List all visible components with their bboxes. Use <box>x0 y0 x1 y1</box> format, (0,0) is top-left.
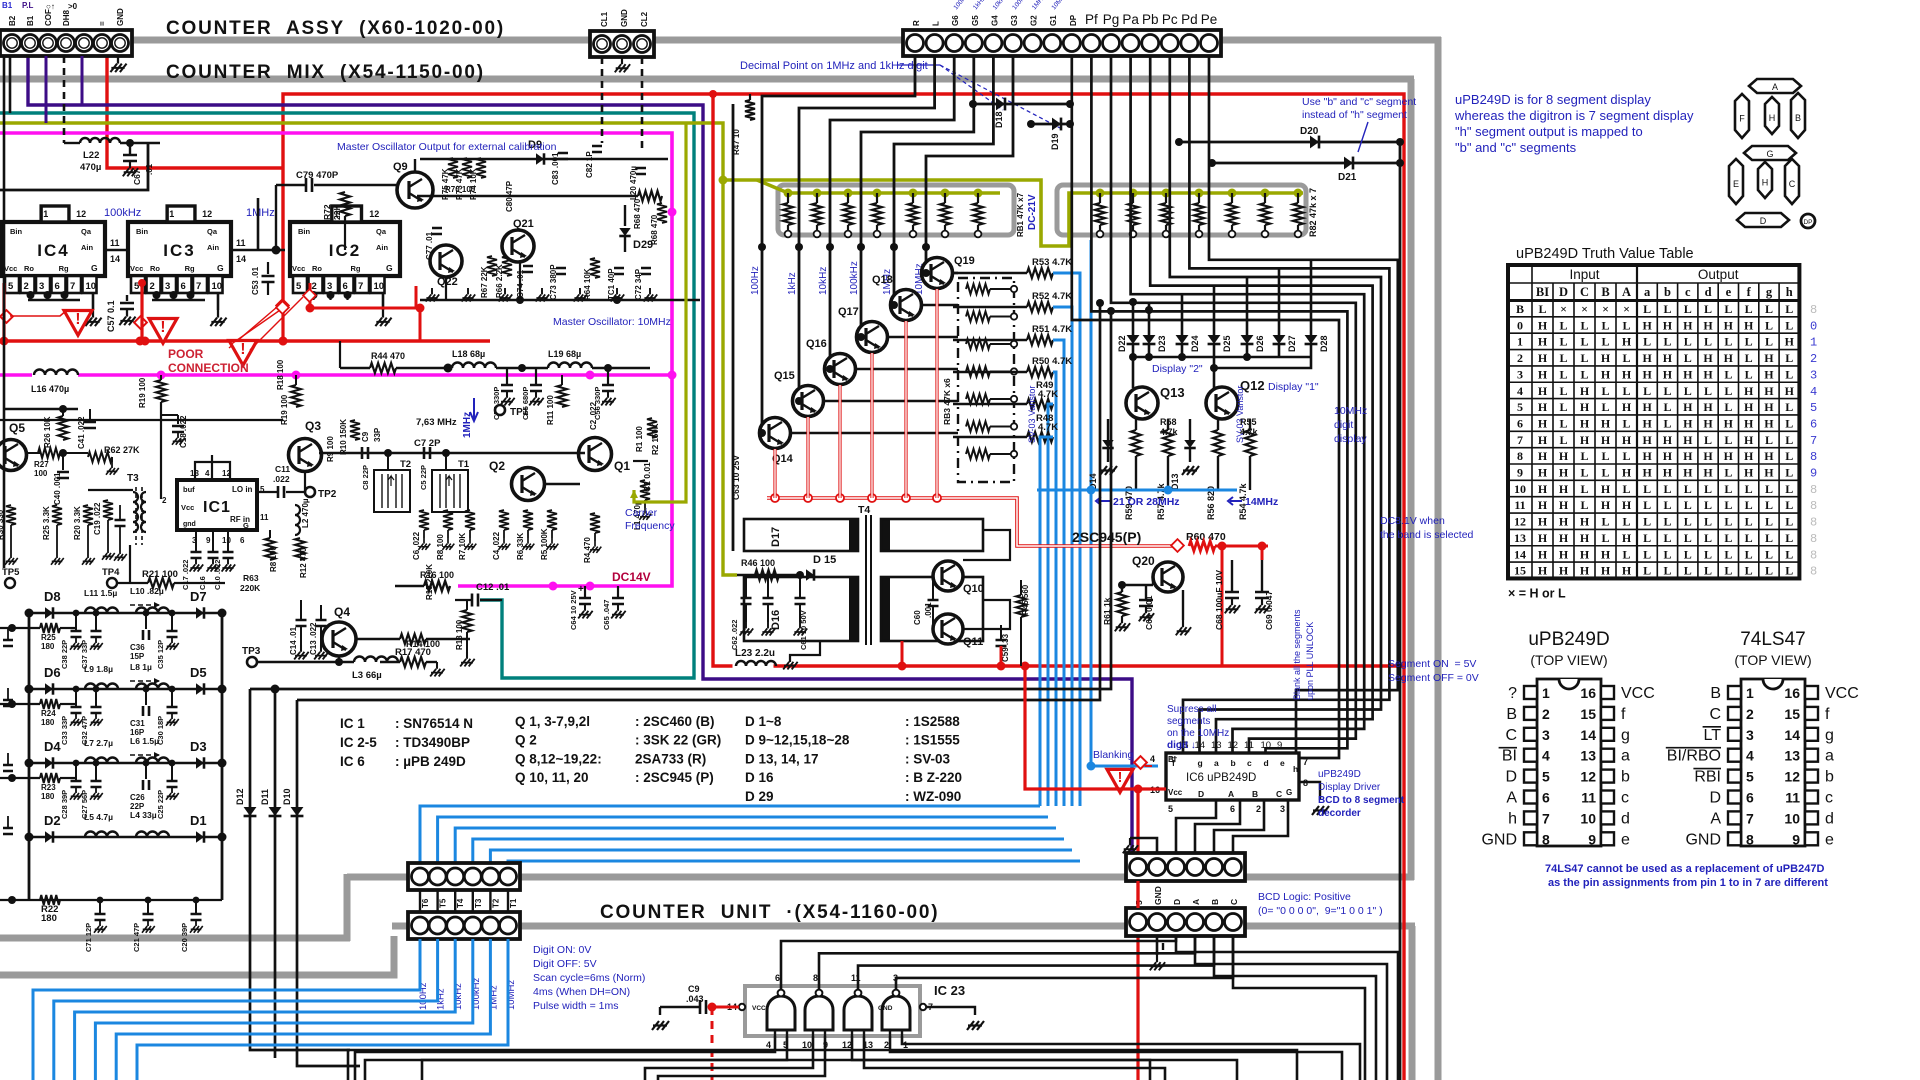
svg-text:L8 1µ: L8 1µ <box>130 662 152 672</box>
capacitor C53 <box>267 262 269 274</box>
nand gate 1 <box>767 996 795 1030</box>
svg-text:h: h <box>1786 285 1793 299</box>
resistor R61 <box>1121 585 1123 592</box>
svg-text:CONNECTION: CONNECTION <box>168 361 249 375</box>
svg-text:BCD Logic: Positive: BCD Logic: Positive <box>1258 891 1351 903</box>
wire q5 top <box>4 408 78 410</box>
svg-text:TP2: TP2 <box>318 489 337 500</box>
svg-text:L: L <box>1601 466 1609 480</box>
svg-text:R67 22K: R67 22K <box>480 266 489 298</box>
svg-text:D8: D8 <box>44 589 61 604</box>
svg-text:Pulse width = 1ms: Pulse width = 1ms <box>533 1000 619 1012</box>
svg-text:6: 6 <box>181 281 186 292</box>
svg-text:H: H <box>1580 416 1590 430</box>
svg-text:A: A <box>1506 790 1517 807</box>
capacitor C41 <box>89 409 91 420</box>
svg-text:H: H <box>1703 466 1713 480</box>
svg-text:Pa: Pa <box>1122 12 1139 27</box>
svg-text:g: g <box>1825 727 1834 744</box>
wire gray outer frame top <box>133 37 592 44</box>
svg-text:R74 10K: R74 10K <box>469 168 478 200</box>
svg-text:7: 7 <box>1746 810 1754 826</box>
svg-text:Vcc: Vcc <box>292 264 305 273</box>
svg-text:Qa: Qa <box>207 227 218 236</box>
svg-text:2: 2 <box>1542 706 1550 722</box>
svg-text:D7: D7 <box>190 589 207 604</box>
svg-text:GND: GND <box>1481 831 1517 848</box>
svg-text:R23: R23 <box>41 783 56 792</box>
svg-text:H: H <box>1744 416 1754 430</box>
svg-text:D: D <box>1709 790 1721 807</box>
svg-text:R66 2.2K: R66 2.2K <box>495 264 504 298</box>
transistor Q16 <box>825 354 856 385</box>
svg-text:8: 8 <box>1810 565 1817 579</box>
resistors R48-R53 <box>953 272 1027 275</box>
svg-text:H: H <box>1744 466 1754 480</box>
svg-text:H: H <box>1622 466 1632 480</box>
svg-text:D2: D2 <box>44 813 61 828</box>
svg-text:Use "b" and "c" segment: Use "b" and "c" segment <box>1302 96 1416 108</box>
capacitor C40 <box>62 453 64 470</box>
svg-text:L: L <box>1643 302 1651 316</box>
capacitor C64 <box>584 586 586 598</box>
svg-text:L: L <box>1622 515 1630 529</box>
svg-text:H: H <box>1622 335 1632 349</box>
svg-text:3: 3 <box>1810 368 1817 382</box>
svg-text:Q3: Q3 <box>305 419 321 433</box>
svg-text:H: H <box>1580 384 1590 398</box>
svg-text:L: L <box>1745 515 1753 529</box>
svg-text:L10 .82µ: L10 .82µ <box>130 586 164 596</box>
svg-text:× = H or L: × = H or L <box>1508 586 1566 600</box>
svg-text:A: A <box>1772 82 1778 92</box>
svg-text:R73 47K: R73 47K <box>455 168 464 200</box>
svg-text:R75 47K: R75 47K <box>441 168 450 200</box>
svg-text:2: 2 <box>24 281 29 292</box>
wire gnd stub <box>1130 838 1157 853</box>
svg-text:L: L <box>1745 547 1753 561</box>
svg-text:L: L <box>1745 482 1753 496</box>
svg-text:L9 1.8µ: L9 1.8µ <box>84 664 113 674</box>
capacitor C67 <box>129 143 131 155</box>
svg-text:H: H <box>1538 531 1548 545</box>
svg-text:C8 22P: C8 22P <box>361 465 370 490</box>
svg-text:3: 3 <box>1746 727 1754 743</box>
svg-text:7: 7 <box>196 281 201 292</box>
svg-text:H: H <box>1642 416 1652 430</box>
svg-text:B1: B1 <box>2 1 13 10</box>
svg-text:H: H <box>1724 449 1734 463</box>
svg-text:L: L <box>1724 498 1732 512</box>
svg-text:R1 100: R1 100 <box>635 426 644 452</box>
ground osc <box>467 288 469 294</box>
svg-text:Digit OFF: 5V: Digit OFF: 5V <box>533 958 597 970</box>
svg-text:Display Driver: Display Driver <box>1318 782 1381 793</box>
svg-text:H: H <box>1538 498 1548 512</box>
svg-text:: µPB 249D: : µPB 249D <box>395 754 466 769</box>
svg-text:L: L <box>1785 547 1793 561</box>
svg-text:: WZ-090: : WZ-090 <box>905 789 961 804</box>
capacitor C68 <box>1231 560 1233 592</box>
svg-text:a: a <box>1214 758 1219 768</box>
svg-text:3: 3 <box>1517 367 1523 381</box>
svg-text:6: 6 <box>55 281 60 292</box>
wire q1-q2 row <box>545 483 580 485</box>
svg-text:1MHz: 1MHz <box>246 207 275 219</box>
svg-text:.001: .001 <box>924 602 933 618</box>
svg-text:?: ? <box>1508 685 1517 702</box>
capacitor C66 <box>1145 585 1147 600</box>
svg-text:B1: B1 <box>26 15 35 26</box>
svg-text:g: g <box>1198 758 1203 768</box>
svg-text:R9 100: R9 100 <box>326 436 335 462</box>
svg-text:×: × <box>1623 302 1630 316</box>
svg-text:C66 0.01: C66 0.01 <box>1144 595 1154 630</box>
svg-text:12: 12 <box>76 209 86 219</box>
svg-text:L: L <box>1643 531 1651 545</box>
svg-text:L22: L22 <box>83 150 99 161</box>
capacitor C21 <box>147 900 149 914</box>
svg-text:H: H <box>1663 351 1673 365</box>
svg-text:!: ! <box>160 319 165 336</box>
capacitor C27 <box>95 763 97 781</box>
svg-text:H: H <box>1764 449 1774 463</box>
svg-text:TC1 40P: TC1 40P <box>607 268 616 300</box>
svg-text:H: H <box>1538 466 1548 480</box>
connector J1 top-left <box>0 30 132 56</box>
svg-text:H: H <box>1744 400 1754 414</box>
resistor array RB1 box <box>778 185 1014 235</box>
capacitor C32 <box>95 689 97 707</box>
svg-text:f: f <box>1621 706 1626 723</box>
svg-text:7: 7 <box>1303 757 1308 767</box>
svg-text:BI/RBO: BI/RBO <box>1667 748 1721 765</box>
wire IC6 bcd pins <box>1176 800 1216 853</box>
svg-text:H: H <box>1559 482 1569 496</box>
svg-text:VCC: VCC <box>752 1005 766 1012</box>
svg-text:A: A <box>1228 789 1234 799</box>
wire red dashed down <box>711 1007 714 1080</box>
svg-text:D 16: D 16 <box>745 770 774 785</box>
svg-text:L: L <box>1785 367 1793 381</box>
svg-text:C: C <box>1709 706 1721 723</box>
svg-text:Pb: Pb <box>1142 12 1159 27</box>
svg-text:C22 120P: C22 120P <box>0 827 2 858</box>
svg-text:CL1: CL1 <box>600 11 609 27</box>
svg-text:GND: GND <box>1685 831 1721 848</box>
diode D21 <box>1212 162 1400 165</box>
svg-text:Q11: Q11 <box>963 636 983 648</box>
svg-text:C83 .001: C83 .001 <box>551 152 560 185</box>
svg-text:2: 2 <box>162 496 167 505</box>
resistor array element x=848 <box>847 193 849 203</box>
ground osc <box>504 288 506 294</box>
svg-text:H: H <box>1663 449 1673 463</box>
svg-text:D20: D20 <box>1300 126 1319 137</box>
capacitor C54 <box>506 368 508 385</box>
capacitor C18 <box>161 414 178 416</box>
svg-text:H: H <box>1683 400 1693 414</box>
svg-text:H: H <box>1642 400 1652 414</box>
svg-text:VCC: VCC <box>1621 685 1655 702</box>
svg-text:6: 6 <box>1810 417 1817 431</box>
svg-text:g: g <box>1621 727 1630 744</box>
svg-text:Rg: Rg <box>59 264 69 273</box>
svg-text:L: L <box>1580 498 1588 512</box>
svg-text:Pd: Pd <box>1181 12 1198 27</box>
svg-text:L: L <box>1785 302 1793 316</box>
capacitor C10 .022 <box>227 530 229 552</box>
svg-text:L: L <box>1559 384 1567 398</box>
svg-text:L: L <box>1559 400 1567 414</box>
resistor array element x=1298 <box>1297 193 1299 203</box>
svg-text:R25: R25 <box>41 633 56 642</box>
svg-text:Rg: Rg <box>351 264 361 273</box>
svg-text:R82 47k x 7: R82 47k x 7 <box>1308 188 1318 237</box>
svg-text:11: 11 <box>1244 740 1254 751</box>
warning triangle blanking <box>1107 769 1133 792</box>
svg-text:L: L <box>1724 482 1732 496</box>
svg-text:3: 3 <box>1542 727 1550 743</box>
svg-text:C53 .01: C53 .01 <box>251 266 260 295</box>
svg-text:10: 10 <box>212 281 223 292</box>
svg-text:H: H <box>1601 367 1611 381</box>
svg-text:8: 8 <box>1810 532 1817 546</box>
svg-text:the band is selected: the band is selected <box>1380 529 1474 541</box>
ground osc <box>579 288 581 294</box>
svg-text:L: L <box>1765 515 1773 529</box>
svg-text:L: L <box>1559 351 1567 365</box>
svg-text:H: H <box>1683 416 1693 430</box>
capacitor C19b <box>115 520 126 526</box>
svg-text:C5 22P: C5 22P <box>419 465 428 490</box>
wire IC23 pin7 gnd <box>920 1004 926 1010</box>
svg-text:C40 .001: C40 .001 <box>53 472 62 505</box>
svg-text:6: 6 <box>240 536 245 545</box>
svg-text:H: H <box>1683 318 1693 332</box>
svg-text:Q9: Q9 <box>393 161 408 173</box>
resistor R25 <box>0 627 40 629</box>
svg-text:L: L <box>1704 335 1712 349</box>
svg-text:L: L <box>1601 384 1609 398</box>
svg-text:6: 6 <box>1746 790 1754 806</box>
svg-text:C69 0.047: C69 0.047 <box>1264 591 1274 630</box>
svg-text:"h" segment output is mapped t: "h" segment output is mapped to <box>1455 124 1643 139</box>
svg-text:H: H <box>1622 400 1632 414</box>
svg-text:H: H <box>1601 482 1611 496</box>
capacitor C35 <box>171 613 173 631</box>
svg-text:L: L <box>1643 482 1651 496</box>
svg-text:12: 12 <box>1580 769 1596 785</box>
wire gray inner frame top <box>0 76 1414 83</box>
svg-text:D11: D11 <box>260 789 270 805</box>
svg-text:L2 470µ: L2 470µ <box>301 498 310 528</box>
svg-text:×: × <box>1560 302 1567 316</box>
svg-text:L: L <box>1765 335 1773 349</box>
wire mo top <box>648 158 668 160</box>
svg-text:L: L <box>1601 335 1609 349</box>
svg-text:H: H <box>1744 449 1754 463</box>
svg-text:12: 12 <box>1514 515 1526 529</box>
svg-text:c: c <box>1685 285 1691 299</box>
svg-text:segments: segments <box>1167 716 1210 727</box>
svg-text:Q16: Q16 <box>806 338 827 350</box>
svg-text:R5 100K: R5 100K <box>540 528 549 560</box>
wire red through connector <box>1136 881 1139 908</box>
svg-text:T4: T4 <box>858 504 870 516</box>
svg-text:Blank all the segments: Blank all the segments <box>1292 609 1302 700</box>
svg-text:GND: GND <box>878 1005 893 1012</box>
svg-text:H: H <box>1559 515 1569 529</box>
svg-text:L: L <box>1622 318 1630 332</box>
svg-text:C17 .022: C17 .022 <box>181 560 190 590</box>
svg-text:L: L <box>1724 400 1732 414</box>
svg-text:C36: C36 <box>130 643 145 652</box>
svg-text:H: H <box>1764 466 1774 480</box>
svg-text:c: c <box>1825 790 1833 807</box>
resistor array element x=877 <box>876 193 878 203</box>
svg-text:D 13, 14, 17: D 13, 14, 17 <box>745 751 819 766</box>
wires IC1 top pins <box>195 462 230 480</box>
svg-text:5: 5 <box>1810 401 1817 415</box>
wire gray counter-unit right vertical <box>1409 926 1416 1080</box>
resistor network RB3 dashed box <box>958 278 1014 482</box>
svg-text:DP: DP <box>1803 219 1812 226</box>
svg-text:L: L <box>1559 416 1567 430</box>
svg-text:D 1~8: D 1~8 <box>745 714 782 729</box>
svg-text:B: B <box>1795 113 1801 123</box>
diode D18 <box>973 103 1070 106</box>
svg-text:L: L <box>1663 498 1671 512</box>
svg-text:100kHz: 100kHz <box>849 261 860 295</box>
svg-text:H: H <box>1559 466 1569 480</box>
svg-text:1: 1 <box>1810 336 1817 350</box>
diode D11 <box>274 689 277 1058</box>
connector display segment strip <box>903 30 1221 56</box>
svg-text:Ain: Ain <box>207 243 220 252</box>
svg-text:C77 .01: C77 .01 <box>425 231 434 260</box>
svg-text:12: 12 <box>202 209 212 219</box>
svg-text:7: 7 <box>1542 810 1550 826</box>
svg-text:digit ↓: digit ↓ <box>1167 740 1196 751</box>
svg-text:G6: G6 <box>951 15 960 26</box>
svg-text:L: L <box>1622 351 1630 365</box>
svg-text:Display "1": Display "1" <box>1268 381 1319 393</box>
svg-text:D17: D17 <box>770 527 782 547</box>
svg-text:R25 3.3K: R25 3.3K <box>42 506 51 540</box>
svg-text:10kHz: 10kHz <box>818 267 829 295</box>
svg-text:Scan cycle=6ms (Norm): Scan cycle=6ms (Norm) <box>533 972 645 984</box>
svg-text:Q22: Q22 <box>437 276 458 288</box>
part left cap <box>3 765 13 771</box>
svg-text:3: 3 <box>327 281 332 292</box>
svg-text:R51 4.7K: R51 4.7K <box>1032 324 1072 335</box>
svg-text:H: H <box>1764 351 1774 365</box>
svg-text:C19 .022: C19 .022 <box>93 502 102 535</box>
svg-text:H: H <box>1538 367 1548 381</box>
svg-text:L: L <box>1704 498 1712 512</box>
svg-text:D18: D18 <box>994 111 1004 128</box>
svg-text:R17 470: R17 470 <box>395 647 431 658</box>
svg-text:: SV-03: : SV-03 <box>905 751 951 766</box>
svg-text:Ro: Ro <box>150 264 160 273</box>
svg-text:C25 22P: C25 22P <box>156 790 165 819</box>
svg-text:C: C <box>1789 179 1796 189</box>
svg-text:9: 9 <box>1810 467 1817 481</box>
svg-text:C2 .022: C2 .022 <box>589 401 598 430</box>
svg-text:H: H <box>1601 351 1611 365</box>
svg-text:L: L <box>1724 515 1732 529</box>
svg-text:Decimal Point on 1MHz and 1kHz: Decimal Point on 1MHz and 1kHz digit <box>740 60 928 72</box>
wire left edge vertical <box>3 56 6 568</box>
resistor R26 <box>62 409 64 416</box>
svg-text:e: e <box>1825 831 1834 848</box>
diode D10 <box>297 700 360 1066</box>
ground T4 <box>790 641 820 662</box>
svg-text:3: 3 <box>39 281 44 292</box>
diode D20 <box>1179 141 1400 144</box>
svg-text:H: H <box>1601 416 1611 430</box>
svg-text:L: L <box>932 21 941 26</box>
svg-text:4: 4 <box>1542 748 1550 764</box>
bottom filter row <box>0 899 222 901</box>
svg-text:C71 12P: C71 12P <box>84 923 93 952</box>
svg-text:H: H <box>1724 416 1734 430</box>
svg-text:L6 1.5µ: L6 1.5µ <box>130 736 159 746</box>
ground osc <box>541 288 543 294</box>
svg-text:0: 0 <box>1517 318 1523 332</box>
svg-text:H: H <box>1580 547 1590 561</box>
svg-text:Q20: Q20 <box>1132 554 1155 568</box>
svg-text:H: H <box>1762 178 1769 188</box>
svg-text:1: 1 <box>1542 685 1550 701</box>
svg-text:T3: T3 <box>127 473 139 484</box>
svg-text:Q13: Q13 <box>1160 385 1185 400</box>
svg-text:BCD to 8 segment: BCD to 8 segment <box>1318 795 1405 806</box>
svg-text:C61 10 50V: C61 10 50V <box>799 610 808 650</box>
svg-text:H: H <box>1744 318 1754 332</box>
svg-text:RB1 47K x7: RB1 47K x7 <box>1016 192 1025 237</box>
svg-text:T4: T4 <box>456 898 465 908</box>
resistor array element x=788 <box>787 193 789 203</box>
svg-text:H: H <box>1538 564 1548 578</box>
svg-text:Q19: Q19 <box>954 255 975 267</box>
svg-text:D5: D5 <box>190 665 207 680</box>
svg-text:H: H <box>1622 531 1632 545</box>
svg-text:H: H <box>1538 515 1548 529</box>
wire teal VFO rail <box>0 113 694 678</box>
transistor Q10 <box>933 561 963 591</box>
svg-text:Pg: Pg <box>1103 12 1120 27</box>
svg-text:L: L <box>1724 466 1732 480</box>
svg-text:Qa: Qa <box>376 227 387 236</box>
svg-text:Rg: Rg <box>185 264 195 273</box>
svg-text:L: L <box>1580 466 1588 480</box>
svg-text:L: L <box>1745 367 1753 381</box>
svg-text:BI: BI <box>1536 285 1549 299</box>
svg-text:C4 .022: C4 .022 <box>492 531 501 560</box>
svg-text:L: L <box>1663 400 1671 414</box>
diodes D22-D28 <box>1132 302 1135 335</box>
svg-text:R52 4.7K: R52 4.7K <box>1032 291 1072 302</box>
resistor R23 <box>0 777 40 779</box>
svg-text:Segment OFF = 0V: Segment OFF = 0V <box>1388 672 1479 684</box>
svg-text:H: H <box>1703 351 1713 365</box>
svg-text:L: L <box>1663 384 1671 398</box>
resistor array element x=913 <box>912 193 914 203</box>
svg-text:Pe: Pe <box>1201 12 1218 27</box>
capacitor C61 <box>799 575 801 598</box>
